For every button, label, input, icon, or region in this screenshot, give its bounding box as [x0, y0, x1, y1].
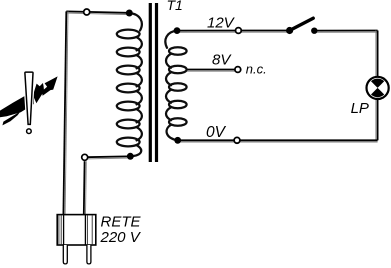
terminal dot secondary 0V tap — [174, 137, 181, 144]
wire 0V rail — [178, 140, 378, 142]
terminal dot primary bottom — [127, 153, 134, 160]
svg-text:n.c.: n.c. — [246, 62, 267, 77]
wire mains left (corner down to plug) — [63, 11, 68, 214]
svg-text:RETE: RETE — [101, 213, 142, 230]
open terminal on 0V wire — [234, 137, 240, 143]
svg-text:220 V: 220 V — [100, 229, 142, 246]
wire lamp return (lamp to 0V corner) — [376, 100, 378, 140]
terminal dot secondary 12V tap — [174, 27, 181, 34]
svg-text:8V: 8V — [212, 51, 232, 68]
danger icon lightning bolt tail band — [0, 95, 34, 117]
switch S1 pivot dot — [286, 27, 293, 34]
svg-text:0V: 0V — [206, 124, 227, 141]
open terminal on mains top wire — [84, 9, 90, 15]
danger icon lightning bolt arrowhead segment — [42, 76, 58, 95]
switch S1 lever — [290, 18, 313, 30]
wire lamp feed (corner down to lamp) — [376, 31, 378, 77]
danger icon dot below bar — [27, 129, 32, 134]
open terminal 8V n.c. — [235, 67, 241, 73]
svg-text:T1: T1 — [167, 0, 183, 13]
wire 8V stub (tap to n.c. terminal) — [186, 70, 235, 72]
transformer T1 primary winding — [117, 13, 142, 156]
danger icon lightning bolt tail chevron — [2, 111, 20, 125]
danger icon lightning bolt middle zigzag — [33, 83, 44, 103]
terminal dot primary top — [126, 10, 133, 17]
plug prong left — [63, 245, 67, 264]
transformer T1 secondary winding — [165, 31, 186, 141]
wire mains right (junction down to plug) — [84, 161, 86, 214]
open terminal on 12V wire — [236, 28, 242, 34]
switch S1 contact dot — [311, 28, 317, 34]
mains plug body (RETE 220V) — [57, 215, 96, 245]
wire primary bottom (junction to T1 primary) — [86, 156, 127, 159]
wire 12V rail (switch to corner) — [314, 31, 377, 33]
wire 12V rail (tap to switch) — [177, 31, 290, 33]
svg-text:LP: LP — [351, 100, 369, 117]
open terminal junction left (mains) — [82, 154, 88, 160]
svg-text:12V: 12V — [207, 14, 236, 31]
wire primary top (corner to T1 primary) — [66, 11, 126, 14]
lamp LP body — [367, 77, 389, 99]
transformer T1 core — [149, 3, 158, 162]
plug prong right — [87, 245, 91, 264]
danger icon screwdriver (exclamation bar) — [25, 72, 33, 124]
